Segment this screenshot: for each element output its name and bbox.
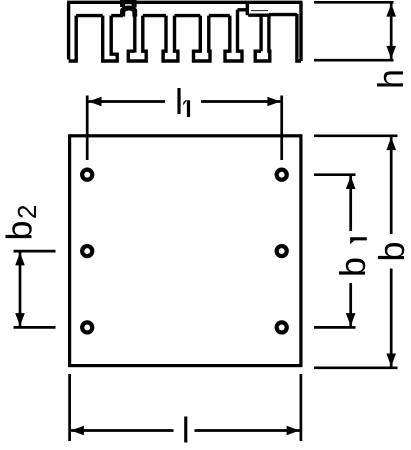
dimension l line (71, 429, 174, 432)
hook2 slot bottom line (248, 13, 270, 16)
hole middle-left (82, 246, 92, 256)
hook2 faint slot line (251, 10, 268, 12)
dimension l1 arrows (89, 97, 281, 107)
hook1 T-foot (128, 16, 146, 61)
left wall outer line (67, 2, 70, 59)
dimension b2 line (19, 252, 22, 326)
hook1 crop remnant patch (120, 0, 136, 4)
hole bottom-right (277, 322, 287, 332)
dimension b1 extension lines (314, 175, 356, 328)
channel top: fin C to fin D (209, 14, 230, 17)
dimension b arrows (386, 137, 396, 366)
dimension h extension lines (314, 2, 394, 60)
left wall bottom (69, 16, 77, 61)
dimension l1 line (89, 100, 166, 103)
channel top: hook1 to fin B (143, 14, 166, 17)
profile top edge (67, 1, 302, 4)
dimension h arrows (386, 4, 396, 59)
dimension b1 line (349, 176, 352, 231)
hole top-left (82, 170, 92, 180)
svg-text:l: l (182, 409, 190, 450)
hole bottom-left (82, 322, 92, 332)
hook1 shaft left line (133, 14, 136, 53)
fin D with T-foot (225, 10, 242, 61)
channel top: fin B to fin C (175, 14, 201, 17)
channel top: hook2 to right wall (269, 13, 297, 16)
fin C with T-foot (194, 16, 211, 61)
dimension b1 arrows (346, 176, 356, 326)
channel top: fin A to hook1 (111, 14, 123, 17)
hole middle-right (277, 246, 287, 256)
dimension l extension lines (70, 374, 301, 441)
right wall outer line (299, 2, 302, 61)
base plate outline (70, 136, 301, 366)
dimension b2 arrows (15, 252, 25, 326)
dimension b line (390, 137, 393, 234)
right wall inner line and bottom (297, 14, 301, 61)
hook1 right prong (cropped at top) (132, 0, 137, 8)
svg-text:b: b (371, 241, 411, 261)
hook1 left prong (cropped at top) (120, 0, 125, 7)
fin B with T-foot (163, 16, 178, 61)
svg-text:b: b (332, 257, 373, 277)
channel top: fin D to hook2 slot (238, 8, 248, 11)
dimension l1 extension lines (87, 96, 282, 161)
dimension b extension lines (314, 136, 398, 368)
fin A with L-foot (103, 16, 118, 61)
hook2 slot connector to top edge (246, 2, 249, 15)
channel top: wall to fin A (76, 14, 103, 17)
hook2 T-foot (255, 15, 270, 61)
hole top-right (277, 170, 287, 180)
svg-text:l: l (175, 81, 183, 122)
svg-text:2: 2 (12, 205, 42, 219)
hook2 shaft left line (259, 15, 262, 51)
heatsink profile cross-section (top view) (67, 0, 302, 61)
svg-text:b: b (0, 220, 40, 240)
dimension l arrows (71, 426, 300, 436)
dimension h line (390, 4, 393, 59)
hook1 bulge (thick rounded top) (120, 5, 137, 16)
dimension b2 extension lines (14, 251, 56, 327)
svg-text:h: h (370, 69, 411, 89)
